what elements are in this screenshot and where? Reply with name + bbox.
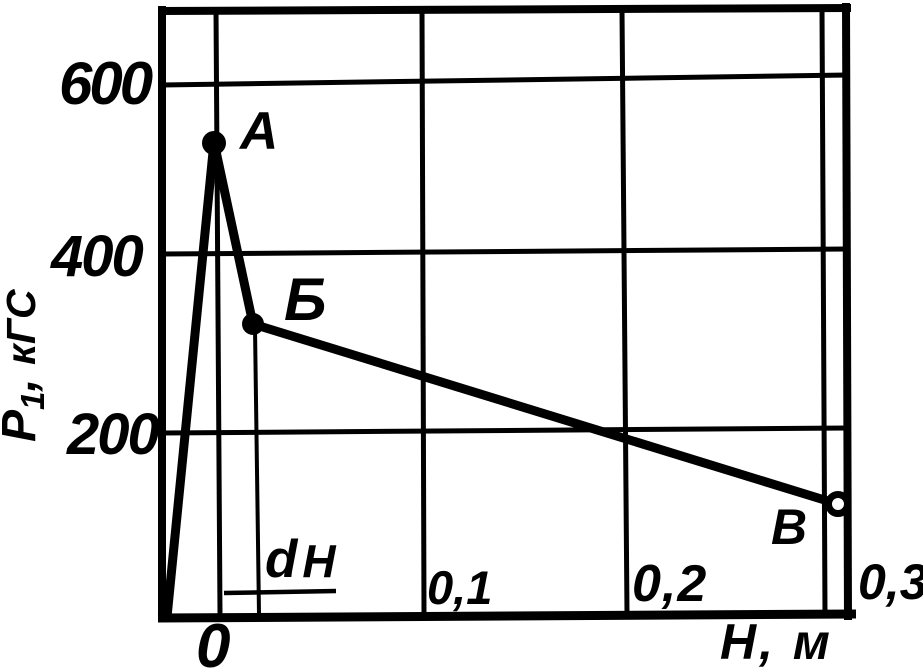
svg-text:200: 200 — [66, 402, 160, 467]
dH dimension line — [224, 591, 336, 593]
horizontal gridline 600 — [162, 75, 848, 85]
svg-text:400: 400 — [50, 224, 144, 289]
svg-text:H, м: H, м — [720, 614, 833, 670]
axis frame bottom border (H axis) — [158, 614, 856, 618]
point B open circle — [829, 495, 848, 514]
horizontal gridline 400 — [162, 249, 848, 254]
vertical gridline x=0.1 — [422, 10, 424, 614]
svg-text:0,3: 0,3 — [858, 554, 923, 610]
y axis title P1, kgs (rotated) — [0, 288, 51, 442]
svg-text:0: 0 — [196, 612, 230, 672]
svg-text:P1, кГС: P1, кГС — [0, 288, 51, 442]
svg-text:600: 600 — [59, 50, 153, 117]
svg-text:В: В — [771, 499, 807, 555]
curve segment A to B(Б) — [214, 142, 253, 324]
vertical gridline x=0 — [216, 10, 220, 614]
svg-text:0,2: 0,2 — [632, 555, 707, 613]
axis frame left border — [158, 6, 166, 620]
svg-text:A: A — [238, 102, 278, 161]
vertical gridline x=0.2 — [622, 10, 627, 614]
curve segment origin to A — [167, 142, 214, 617]
curve segment Б to V(B) — [253, 324, 831, 502]
axis frame right border — [846, 3, 848, 620]
svg-text:Б: Б — [284, 266, 326, 333]
vertical gridline x=0.3 — [822, 8, 825, 614]
horizontal gridline 200 — [162, 428, 848, 433]
axis frame top border — [158, 8, 851, 11]
vertical marker line below point B (dH offset) — [255, 328, 259, 614]
svg-text:0,1: 0,1 — [427, 561, 492, 614]
point Б dot — [242, 313, 264, 335]
point A dot — [202, 131, 226, 155]
